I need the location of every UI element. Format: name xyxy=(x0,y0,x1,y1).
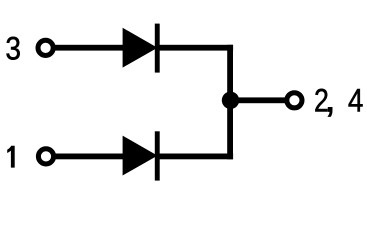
wire: output stub to pins 2,4 xyxy=(230,97,287,103)
svg-text:,: , xyxy=(324,76,336,120)
pin label 1 xyxy=(7,146,15,168)
wire: vertical common cathode bus xyxy=(227,45,233,160)
wire: pin 3 anode lead xyxy=(50,45,130,51)
node: common cathode junction xyxy=(222,92,239,109)
svg-text:4: 4 xyxy=(348,84,364,119)
diode D2 (pin 1) cathode bar xyxy=(155,131,160,180)
svg-text:3: 3 xyxy=(5,31,21,67)
diode D1 (pin 3) cathode bar xyxy=(155,24,160,73)
wire: bottom cathode lead to corner xyxy=(159,154,233,160)
terminal pins 2,4 xyxy=(287,93,302,108)
diode D2 (pin 1) triangle anode xyxy=(123,136,158,176)
wire: pin 1 anode lead xyxy=(50,154,130,160)
terminal pin 3 xyxy=(38,40,53,55)
terminal pin 1 xyxy=(38,149,53,164)
diode D1 (pin 3) triangle anode xyxy=(123,28,158,68)
wire: top cathode lead to corner xyxy=(159,45,233,51)
